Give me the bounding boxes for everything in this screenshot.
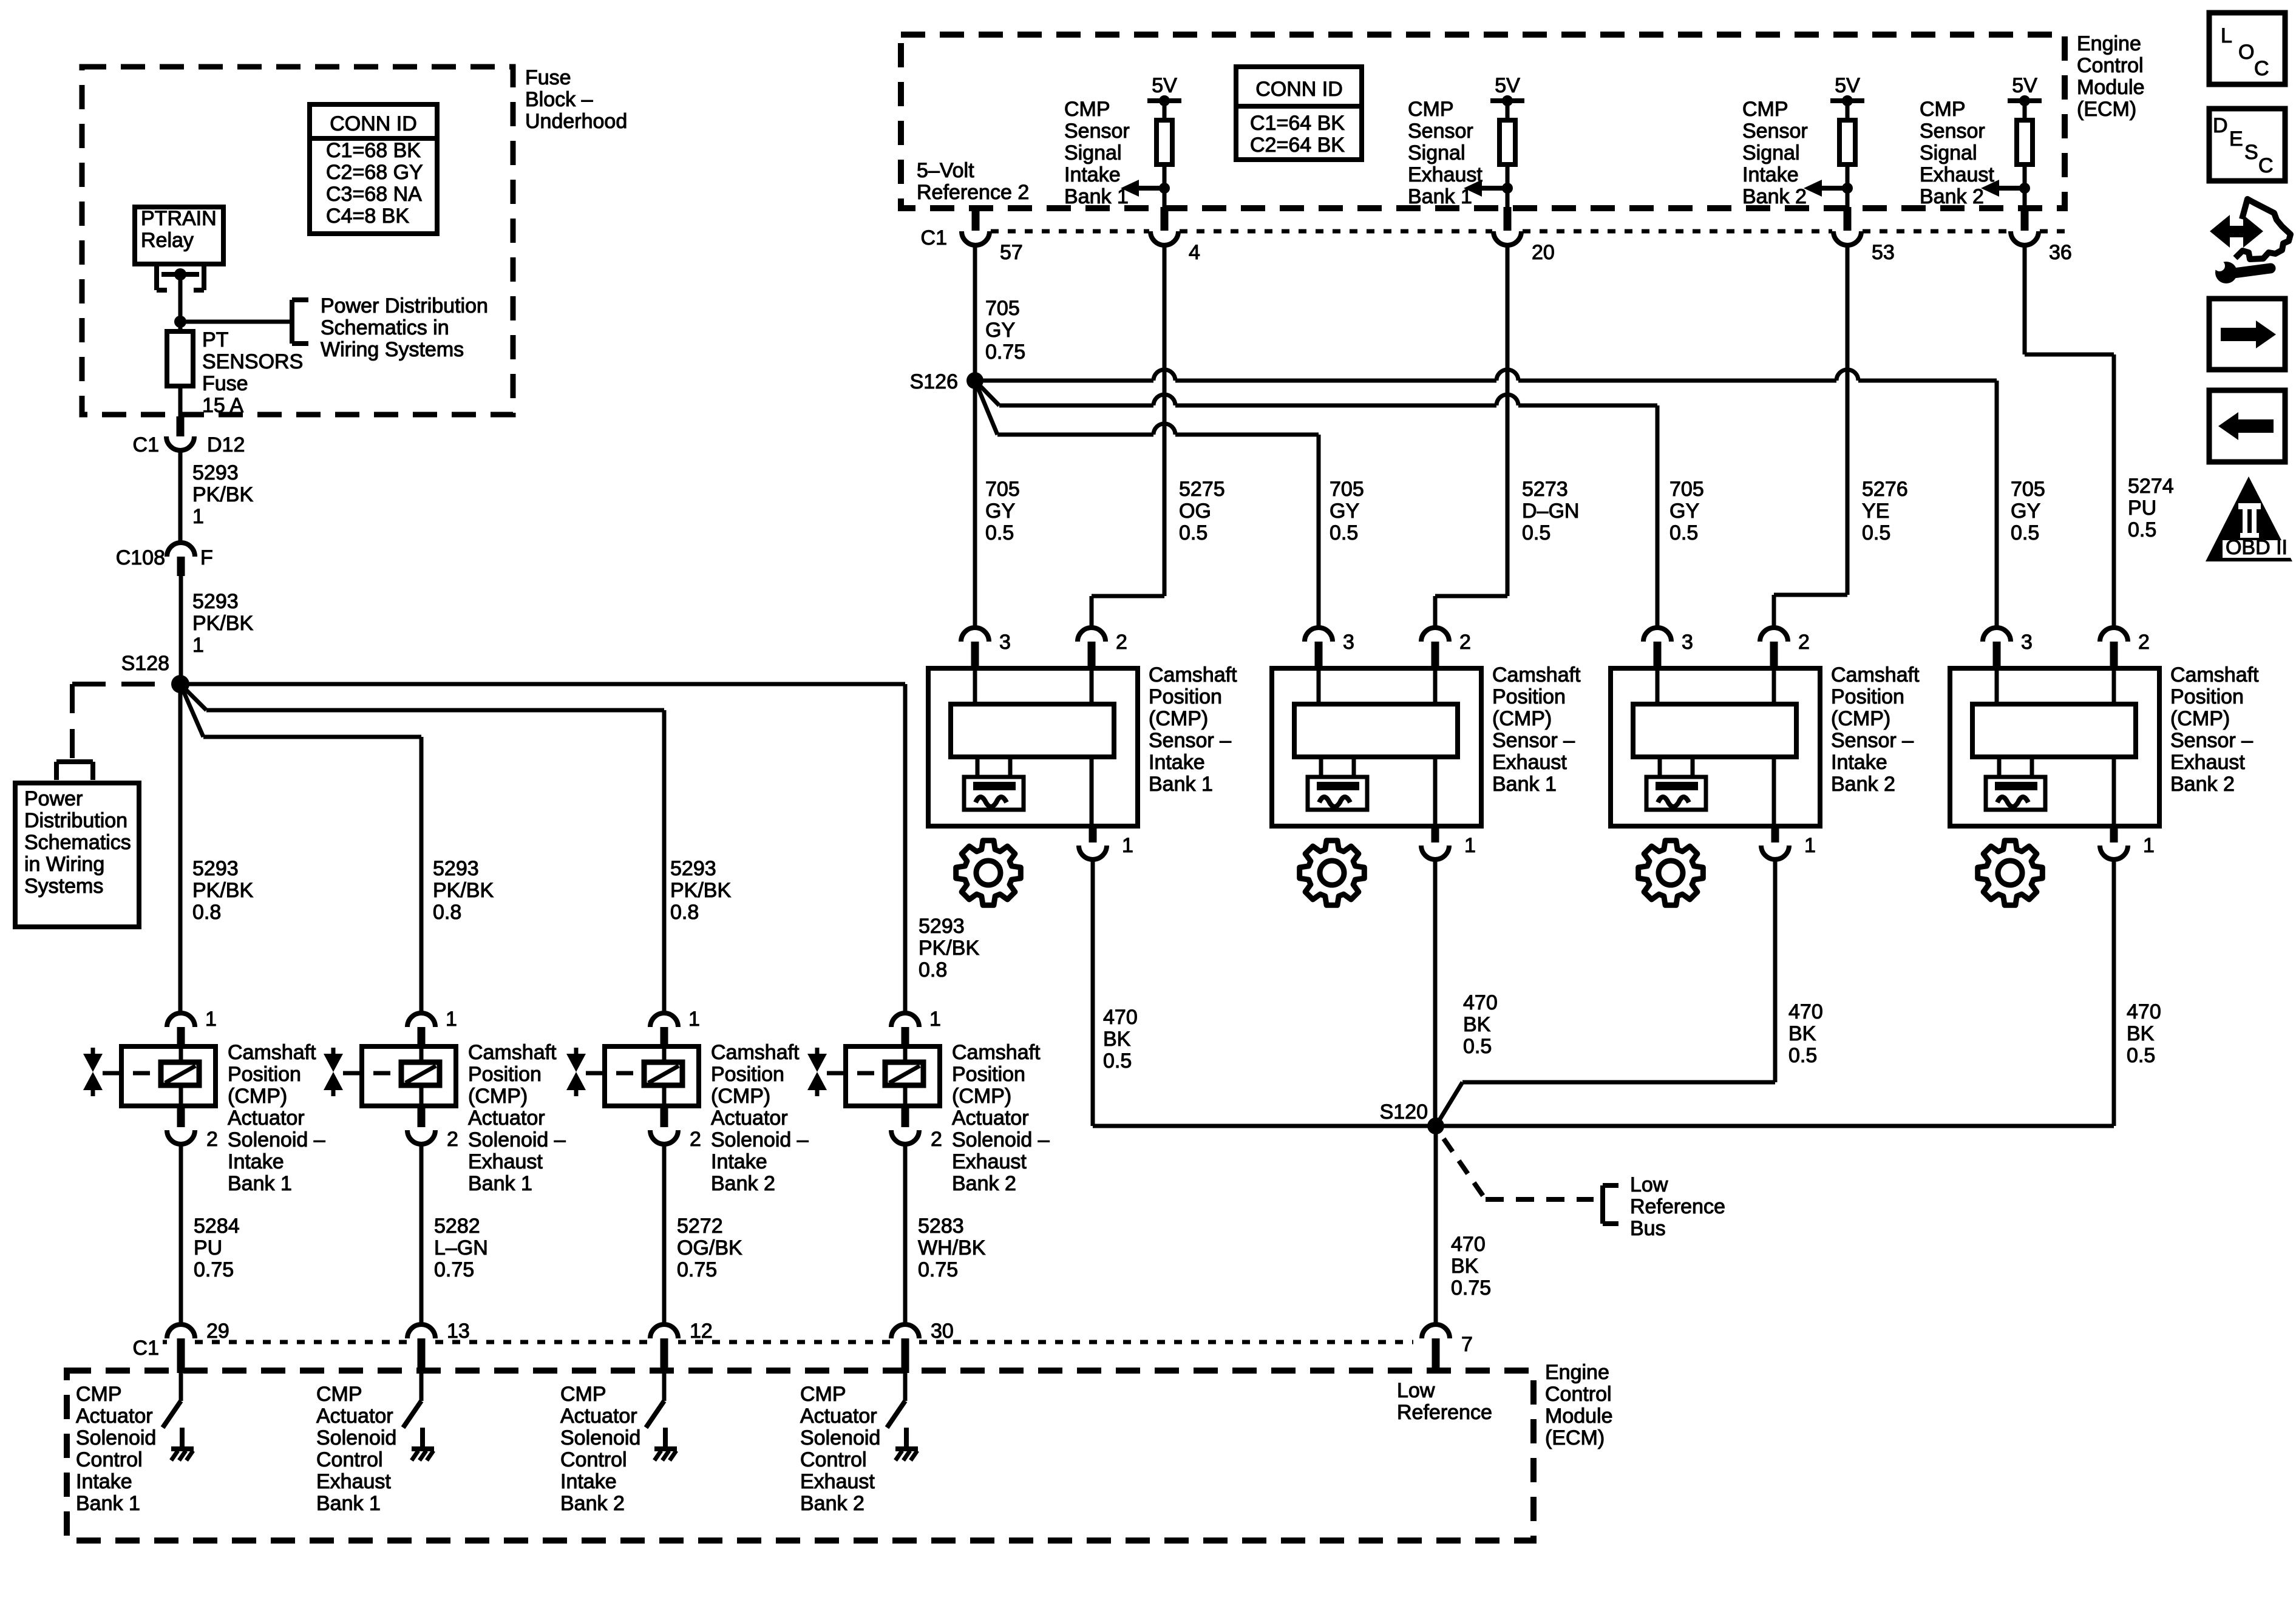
label engine control module bottom bbox=[1545, 1361, 1613, 1449]
valve symbol actuator 3 bbox=[566, 1048, 644, 1096]
svg-text:5293: 5293 bbox=[192, 590, 239, 613]
driver switch ECM output 2 bbox=[403, 1373, 421, 1428]
relay K PTRAIN box bbox=[135, 207, 223, 264]
svg-text:1: 1 bbox=[446, 1008, 457, 1031]
svg-text:5283: 5283 bbox=[918, 1215, 964, 1238]
svg-text:F: F bbox=[200, 546, 213, 569]
svg-text:5293: 5293 bbox=[919, 915, 965, 938]
svg-text:0.75: 0.75 bbox=[194, 1258, 234, 1281]
label PT SENSORS fuse bbox=[202, 328, 303, 417]
svg-text:PK/BK: PK/BK bbox=[192, 483, 253, 506]
label wire 5284 PU 0.75 bbox=[194, 1215, 240, 1281]
connector actuator L4 pin 2 bbox=[891, 1106, 942, 1151]
svg-text:PK/BK: PK/BK bbox=[192, 879, 253, 902]
bracket power distribution box bbox=[56, 762, 93, 780]
svg-text:BK: BK bbox=[1103, 1028, 1131, 1051]
label CMP actuator control 3 bbox=[560, 1383, 640, 1515]
svg-text:CMP: CMP bbox=[1742, 98, 1788, 121]
svg-text:Sensor –: Sensor – bbox=[2170, 729, 2253, 752]
svg-text:CMP: CMP bbox=[800, 1383, 846, 1406]
svg-text:YE: YE bbox=[1862, 500, 1889, 523]
fuse F PT SENSORS bbox=[167, 322, 193, 418]
svg-text:15 A: 15 A bbox=[202, 394, 243, 417]
svg-text:Signal: Signal bbox=[1920, 141, 1977, 164]
svg-text:PK/BK: PK/BK bbox=[670, 879, 731, 902]
svg-text:(ECM): (ECM) bbox=[1545, 1426, 1605, 1449]
sensor B2 pickup bbox=[1308, 757, 1367, 810]
svg-text:Control: Control bbox=[560, 1448, 627, 1471]
sensor B4 box bbox=[1950, 668, 2159, 826]
label C1 bottom ECM bbox=[133, 1337, 159, 1360]
svg-text:PU: PU bbox=[194, 1236, 222, 1259]
wire 5283 actuator 4 to ECM bbox=[903, 1144, 908, 1325]
svg-text:53: 53 bbox=[1872, 241, 1895, 264]
svg-text:0.75: 0.75 bbox=[1451, 1276, 1491, 1300]
svg-text:Exhaust: Exhaust bbox=[1920, 163, 1994, 186]
wire 705 GY to S126 bbox=[973, 245, 977, 628]
svg-text:(CMP): (CMP) bbox=[1492, 707, 1552, 730]
ground symbol ECM driver 4 bbox=[895, 1428, 918, 1460]
svg-text:Bank 2: Bank 2 bbox=[711, 1172, 775, 1195]
svg-text:E: E bbox=[2229, 127, 2243, 151]
svg-text:0.5: 0.5 bbox=[2011, 521, 2039, 544]
svg-text:Exhaust: Exhaust bbox=[800, 1470, 875, 1493]
fuse block CONN ID table bbox=[310, 104, 437, 234]
power 5V rail 3 bbox=[1830, 74, 1864, 106]
svg-text:0.5: 0.5 bbox=[1103, 1049, 1132, 1073]
svg-text:0.5: 0.5 bbox=[1862, 521, 1890, 544]
svg-text:PK/BK: PK/BK bbox=[919, 937, 979, 960]
svg-text:BK: BK bbox=[1463, 1013, 1491, 1036]
label actuator 4 bbox=[952, 1041, 1050, 1195]
svg-text:Bank 1: Bank 1 bbox=[1408, 185, 1472, 208]
ECM bottom dashed box bbox=[67, 1371, 1533, 1541]
connector sensor B2 pin 2 bbox=[1421, 628, 1471, 670]
svg-text:36: 36 bbox=[2049, 241, 2072, 264]
svg-text:Position: Position bbox=[228, 1063, 301, 1086]
svg-text:Bank 2: Bank 2 bbox=[1742, 185, 1807, 208]
bracket power distribution reference bbox=[292, 300, 308, 344]
label wire 5282 L&#8211;GN 0.75 bbox=[434, 1215, 488, 1281]
sensor B3 pickup bbox=[1646, 757, 1706, 810]
svg-text:WH/BK: WH/BK bbox=[918, 1236, 986, 1259]
label sensor B4 bbox=[2170, 663, 2259, 796]
svg-text:Bank 2: Bank 2 bbox=[800, 1492, 864, 1515]
svg-text:0.5: 0.5 bbox=[985, 521, 1014, 544]
svg-text:5273: 5273 bbox=[1522, 478, 1568, 501]
svg-text:CMP: CMP bbox=[560, 1383, 606, 1406]
svg-text:CMP: CMP bbox=[1920, 98, 1966, 121]
svg-text:30: 30 bbox=[931, 1320, 954, 1343]
svg-text:Intake: Intake bbox=[76, 1470, 132, 1493]
connector sensor B3 pin 2 bbox=[1760, 628, 1810, 670]
svg-text:L–GN: L–GN bbox=[434, 1236, 488, 1259]
svg-text:5275: 5275 bbox=[1179, 478, 1225, 501]
svg-text:3: 3 bbox=[1682, 631, 1693, 654]
connector actuator L1 pin 2 bbox=[167, 1106, 218, 1151]
svg-text:PK/BK: PK/BK bbox=[433, 879, 494, 902]
svg-text:Position: Position bbox=[2170, 685, 2244, 708]
svg-text:(CMP): (CMP) bbox=[1831, 707, 1890, 730]
wire signal 1 inside ECM bbox=[1163, 188, 1167, 231]
svg-text:Exhaust: Exhaust bbox=[952, 1150, 1027, 1173]
svg-text:Intake: Intake bbox=[228, 1150, 284, 1173]
label splice S126 bbox=[910, 370, 958, 393]
svg-text:CMP: CMP bbox=[1064, 98, 1110, 121]
svg-text:Engine: Engine bbox=[1545, 1361, 1609, 1384]
signal arrow 3 bbox=[1804, 180, 1853, 197]
svg-text:Camshaft: Camshaft bbox=[468, 1041, 557, 1064]
svg-text:Exhaust: Exhaust bbox=[2170, 751, 2245, 774]
svg-text:705: 705 bbox=[2011, 478, 2045, 501]
svg-text:CMP: CMP bbox=[316, 1383, 362, 1406]
svg-text:C108: C108 bbox=[116, 546, 165, 569]
svg-text:Control: Control bbox=[800, 1448, 867, 1471]
label CMP sensor signal 4 bbox=[1920, 98, 1994, 208]
svg-text:705: 705 bbox=[1330, 478, 1364, 501]
connector sensor B4 pin 1 bbox=[2100, 826, 2155, 859]
svg-text:2: 2 bbox=[931, 1128, 942, 1151]
svg-text:GY: GY bbox=[985, 319, 1015, 342]
svg-text:Power Distribution: Power Distribution bbox=[321, 294, 488, 317]
svg-text:D–GN: D–GN bbox=[1522, 500, 1579, 523]
svg-text:D: D bbox=[2213, 114, 2228, 137]
svg-text:1: 1 bbox=[2143, 834, 2155, 857]
svg-text:0.75: 0.75 bbox=[918, 1258, 958, 1281]
label wire 705 GY 0.5 b bbox=[1330, 478, 1364, 544]
svg-text:C1: C1 bbox=[921, 226, 947, 249]
label wire 470 BK 0.5 s4 bbox=[2127, 1000, 2161, 1067]
resistor pullup 4 bbox=[2017, 101, 2033, 189]
svg-text:Actuator: Actuator bbox=[711, 1107, 788, 1130]
wire C108 to S128 bbox=[179, 576, 183, 684]
ground symbol ECM driver 2 bbox=[412, 1428, 434, 1460]
svg-text:1: 1 bbox=[205, 1008, 217, 1031]
connector C1 pin 57 bbox=[921, 226, 1023, 264]
wire 470 BK S120 to pin 7 bbox=[1434, 1126, 1438, 1325]
wire 470 BK sensor1 to S120 bbox=[1093, 859, 1436, 1126]
sensor B3 box bbox=[1611, 668, 1820, 826]
svg-text:470: 470 bbox=[2127, 1000, 2161, 1023]
svg-text:705: 705 bbox=[985, 478, 1020, 501]
svg-text:Reference 2: Reference 2 bbox=[917, 181, 1029, 204]
label wire 5283 WH/BK 0.75 bbox=[918, 1215, 986, 1281]
label wire 470 BK 0.5 s3 bbox=[1788, 1000, 1823, 1067]
svg-text:PTRAIN: PTRAIN bbox=[141, 207, 217, 230]
svg-text:Control: Control bbox=[316, 1448, 383, 1471]
wire junction to schematics bracket bbox=[180, 320, 292, 324]
wire S128 branch to actuator 2 bbox=[180, 684, 421, 1014]
svg-text:BK: BK bbox=[2127, 1022, 2155, 1045]
svg-text:Relay: Relay bbox=[141, 229, 194, 252]
svg-text:Actuator: Actuator bbox=[76, 1405, 153, 1428]
label wire 5293 PK/BK 1 (lower) bbox=[192, 590, 253, 657]
label wire 5275 OG 0.5 bbox=[1179, 478, 1225, 544]
fuse block label bbox=[525, 66, 627, 133]
connector sensor B3 pin 3 bbox=[1643, 628, 1693, 670]
label wire 5274 PU 0.5 bbox=[2128, 475, 2174, 541]
svg-text:Solenoid –: Solenoid – bbox=[711, 1128, 809, 1151]
svg-text:Bank 1: Bank 1 bbox=[76, 1492, 140, 1515]
ECM CONN ID table bbox=[1236, 67, 1362, 160]
svg-text:Solenoid: Solenoid bbox=[316, 1426, 396, 1449]
svg-text:OG/BK: OG/BK bbox=[677, 1236, 742, 1259]
label actuator 1 bbox=[228, 1041, 325, 1195]
svg-text:2: 2 bbox=[447, 1128, 458, 1151]
icon wrench and arrows bbox=[2210, 199, 2291, 283]
svg-text:5272: 5272 bbox=[677, 1215, 723, 1238]
solenoid L1 coil bbox=[161, 1046, 199, 1106]
svg-text:Sensor –: Sensor – bbox=[1831, 729, 1914, 752]
svg-text:Actuator: Actuator bbox=[228, 1107, 305, 1130]
solenoid L2 box bbox=[362, 1046, 456, 1106]
wire signal 3 inside ECM bbox=[1846, 188, 1850, 231]
connector C1 pin 7 low reference bbox=[1422, 1324, 1473, 1373]
svg-text:Systems: Systems bbox=[24, 875, 103, 898]
connector actuator L3 pin 1 bbox=[650, 1008, 700, 1048]
label wire 5293 0.8 actuator3 bbox=[670, 857, 731, 924]
resistor pullup 2 bbox=[1500, 101, 1515, 189]
svg-text:Exhaust: Exhaust bbox=[1492, 751, 1567, 774]
connector sensor B2 pin 3 bbox=[1305, 628, 1354, 670]
svg-text:29: 29 bbox=[206, 1320, 229, 1343]
connector C108 pin F bbox=[116, 543, 213, 576]
wire 470 BK sensor4 to S120 bbox=[1436, 859, 2114, 1126]
svg-text:Camshaft: Camshaft bbox=[2170, 663, 2259, 686]
driver switch ECM output 1 bbox=[163, 1373, 181, 1428]
svg-text:(CMP): (CMP) bbox=[952, 1085, 1011, 1108]
svg-text:Camshaft: Camshaft bbox=[711, 1041, 800, 1064]
svg-text:Position: Position bbox=[952, 1063, 1025, 1086]
svg-text:Power: Power bbox=[24, 787, 83, 810]
svg-text:S120: S120 bbox=[1380, 1100, 1428, 1124]
svg-text:3: 3 bbox=[2021, 631, 2033, 654]
svg-text:GY: GY bbox=[1330, 500, 1359, 523]
ground symbol ECM driver 1 bbox=[171, 1428, 194, 1460]
svg-text:Engine: Engine bbox=[2077, 32, 2141, 55]
svg-text:Wiring Systems: Wiring Systems bbox=[321, 338, 464, 361]
svg-text:2: 2 bbox=[2138, 631, 2150, 654]
icon OBD II triangle bbox=[2206, 476, 2292, 561]
svg-text:PU: PU bbox=[2128, 497, 2156, 520]
connector C1 pin 12 bottom ECM bbox=[650, 1320, 713, 1373]
svg-text:5293: 5293 bbox=[192, 461, 239, 484]
valve symbol actuator 2 bbox=[324, 1048, 401, 1096]
svg-text:Solenoid: Solenoid bbox=[560, 1426, 640, 1449]
connector actuator L2 pin 1 bbox=[407, 1008, 457, 1048]
splice S120 bbox=[1427, 1117, 1444, 1134]
svg-text:Solenoid –: Solenoid – bbox=[228, 1128, 325, 1151]
connector sensor B2 pin 1 bbox=[1421, 826, 1476, 859]
gear symbol sensor 4 bbox=[1978, 841, 2043, 906]
sensor B4 pickup bbox=[1986, 757, 2045, 810]
svg-text:470: 470 bbox=[1103, 1006, 1138, 1029]
svg-text:5284: 5284 bbox=[194, 1215, 240, 1238]
splice S128 bbox=[171, 675, 189, 693]
connector C1 pin 13 bottom ECM bbox=[407, 1320, 470, 1373]
svg-text:5293: 5293 bbox=[670, 857, 716, 880]
wire 705 GY bus to sensor2 pin3 bbox=[975, 381, 1319, 628]
svg-text:5V: 5V bbox=[2012, 74, 2037, 97]
svg-text:Signal: Signal bbox=[1064, 141, 1122, 164]
label wire 5293 PK/BK 1 (upper) bbox=[192, 461, 253, 528]
wire S128 branch to actuator 3 bbox=[180, 684, 664, 1014]
connector C1 pin 30 bottom ECM bbox=[891, 1320, 954, 1373]
svg-text:(CMP): (CMP) bbox=[228, 1085, 287, 1108]
svg-text:705: 705 bbox=[985, 297, 1020, 320]
signal arrow 4 bbox=[1981, 180, 2030, 197]
connector C1 pin 36 bbox=[2011, 231, 2072, 264]
svg-text:Actuator: Actuator bbox=[560, 1405, 637, 1428]
connector actuator L2 pin 2 bbox=[407, 1106, 458, 1151]
svg-text:OG: OG bbox=[1179, 500, 1211, 523]
svg-text:57: 57 bbox=[1000, 241, 1023, 264]
label wire 5272 OG/BK 0.75 bbox=[677, 1215, 742, 1281]
gear symbol sensor 2 bbox=[1300, 841, 1365, 906]
svg-text:Bank 2: Bank 2 bbox=[1831, 773, 1895, 796]
svg-text:SENSORS: SENSORS bbox=[202, 350, 303, 373]
connector C1 pin 20 bbox=[1493, 231, 1555, 264]
connector actuator L3 pin 2 bbox=[650, 1106, 701, 1151]
label CMP sensor signal 3 bbox=[1742, 98, 1808, 208]
label CMP sensor signal 2 bbox=[1408, 98, 1483, 208]
svg-text:GY: GY bbox=[1669, 500, 1699, 523]
svg-text:Reference: Reference bbox=[1630, 1195, 1725, 1218]
svg-text:Bank 1: Bank 1 bbox=[468, 1172, 532, 1195]
svg-text:Low: Low bbox=[1397, 1379, 1435, 1402]
svg-text:Bank 1: Bank 1 bbox=[316, 1492, 381, 1515]
svg-text:Exhaust: Exhaust bbox=[1408, 163, 1483, 186]
svg-text:Sensor: Sensor bbox=[1742, 120, 1808, 143]
svg-text:C2=68 GY: C2=68 GY bbox=[326, 161, 423, 184]
svg-text:Sensor –: Sensor – bbox=[1149, 729, 1231, 752]
svg-text:L: L bbox=[2221, 24, 2232, 47]
svg-text:1: 1 bbox=[1804, 834, 1816, 857]
label CMP sensor signal 1 bbox=[1064, 98, 1130, 208]
svg-text:Sensor –: Sensor – bbox=[1492, 729, 1575, 752]
resistor pullup 3 bbox=[1839, 101, 1855, 189]
icon forward arrow box bbox=[2209, 299, 2285, 370]
svg-text:0.8: 0.8 bbox=[919, 958, 947, 981]
wire 5282 actuator 2 to ECM bbox=[419, 1144, 424, 1325]
svg-text:Module: Module bbox=[1545, 1405, 1613, 1428]
label actuator 2 bbox=[468, 1041, 566, 1195]
icon DESC box bbox=[2209, 109, 2285, 181]
label wire 470 BK 0.75 bbox=[1451, 1233, 1491, 1300]
svg-text:Bus: Bus bbox=[1630, 1217, 1666, 1240]
ground symbol ECM driver 3 bbox=[654, 1428, 677, 1460]
svg-text:Module: Module bbox=[2077, 76, 2145, 99]
svg-text:0.8: 0.8 bbox=[670, 901, 699, 924]
wire 5284 actuator 1 to ECM bbox=[179, 1144, 183, 1325]
svg-text:Distribution: Distribution bbox=[24, 809, 127, 832]
svg-text:Position: Position bbox=[1492, 685, 1566, 708]
connector sensor B1 pin 2 bbox=[1078, 628, 1127, 670]
svg-text:CONN ID: CONN ID bbox=[1255, 78, 1343, 101]
svg-text:4: 4 bbox=[1189, 241, 1200, 264]
svg-text:0.75: 0.75 bbox=[434, 1258, 474, 1281]
bracket low reference bus bbox=[1603, 1185, 1618, 1224]
valve symbol actuator 1 bbox=[83, 1048, 161, 1096]
svg-text:5V: 5V bbox=[1835, 74, 1860, 97]
svg-text:5V: 5V bbox=[1495, 74, 1520, 97]
label CMP actuator control 1 bbox=[76, 1383, 156, 1515]
svg-text:C1=68 BK: C1=68 BK bbox=[326, 139, 421, 162]
svg-text:0.75: 0.75 bbox=[985, 341, 1025, 364]
svg-text:Schematics: Schematics bbox=[24, 831, 131, 854]
svg-text:Position: Position bbox=[1149, 685, 1222, 708]
svg-text:C4=8 BK: C4=8 BK bbox=[326, 205, 409, 228]
svg-text:470: 470 bbox=[1451, 1233, 1486, 1256]
svg-text:Reference: Reference bbox=[1397, 1401, 1492, 1424]
svg-text:13: 13 bbox=[447, 1320, 470, 1343]
svg-text:3: 3 bbox=[1343, 631, 1354, 654]
svg-text:C3=68 NA: C3=68 NA bbox=[326, 183, 422, 206]
svg-text:Actuator: Actuator bbox=[952, 1107, 1029, 1130]
signal arrow 1 bbox=[1121, 180, 1170, 197]
wire 470 BK sensor2 to S120 bbox=[1433, 859, 1438, 1127]
svg-text:1: 1 bbox=[929, 1008, 941, 1031]
svg-text:Control: Control bbox=[1545, 1383, 1612, 1406]
svg-text:Actuator: Actuator bbox=[468, 1107, 545, 1130]
wire 470 BK sensor3 to S120 bbox=[1436, 859, 1775, 1126]
label actuator 3 bbox=[711, 1041, 809, 1195]
connector sensor B4 pin 2 bbox=[2100, 628, 2150, 670]
svg-text:5293: 5293 bbox=[433, 857, 479, 880]
svg-text:2: 2 bbox=[1459, 631, 1471, 654]
power 5V rail 2 bbox=[1490, 74, 1524, 106]
fuse block underhood dashed box bbox=[82, 67, 513, 415]
svg-text:0.8: 0.8 bbox=[192, 901, 221, 924]
wire signal 4 inside ECM bbox=[2023, 188, 2027, 231]
svg-text:Underhood: Underhood bbox=[525, 110, 627, 133]
connector C1 pin 29 bottom ECM bbox=[167, 1320, 229, 1373]
svg-text:Bank 2: Bank 2 bbox=[560, 1492, 625, 1515]
svg-text:BK: BK bbox=[1788, 1022, 1816, 1045]
wire dashed S120 low reference bus bbox=[1444, 1139, 1594, 1199]
svg-text:0.5: 0.5 bbox=[1463, 1035, 1492, 1058]
label wire 5293 0.8 actuator4 bbox=[919, 915, 979, 981]
svg-text:1: 1 bbox=[1122, 834, 1133, 857]
box power distribution schematics bbox=[15, 783, 139, 927]
svg-text:0.5: 0.5 bbox=[2128, 518, 2156, 541]
svg-text:20: 20 bbox=[1532, 241, 1555, 264]
connector row dotted line bottom ECM bbox=[163, 1340, 1413, 1344]
svg-text:CMP: CMP bbox=[76, 1383, 122, 1406]
svg-text:Intake: Intake bbox=[1831, 751, 1887, 774]
connector C1 pin 4 bbox=[1150, 231, 1200, 264]
svg-text:1: 1 bbox=[1464, 834, 1476, 857]
svg-text:Position: Position bbox=[1831, 685, 1904, 708]
svg-text:Control: Control bbox=[2077, 54, 2144, 77]
svg-text:Block –: Block – bbox=[525, 88, 593, 111]
svg-text:Sensor: Sensor bbox=[1408, 120, 1473, 143]
svg-text:Position: Position bbox=[468, 1063, 542, 1086]
svg-text:Intake: Intake bbox=[711, 1150, 767, 1173]
label engine control module top bbox=[2077, 32, 2145, 121]
svg-text:Exhaust: Exhaust bbox=[316, 1470, 391, 1493]
svg-text:(CMP): (CMP) bbox=[468, 1085, 528, 1108]
svg-text:2: 2 bbox=[1798, 631, 1810, 654]
sensor B1 box bbox=[928, 668, 1138, 826]
svg-text:C: C bbox=[2254, 57, 2269, 80]
svg-text:5V: 5V bbox=[1152, 74, 1177, 97]
label wire 470 BK 0.5 s2 bbox=[1463, 991, 1498, 1058]
signal arrow 2 bbox=[1464, 180, 1513, 197]
wire 5272 actuator 3 to ECM bbox=[662, 1144, 667, 1325]
wire 5274 PU drop bbox=[2025, 245, 2114, 628]
svg-text:5274: 5274 bbox=[2128, 475, 2174, 498]
